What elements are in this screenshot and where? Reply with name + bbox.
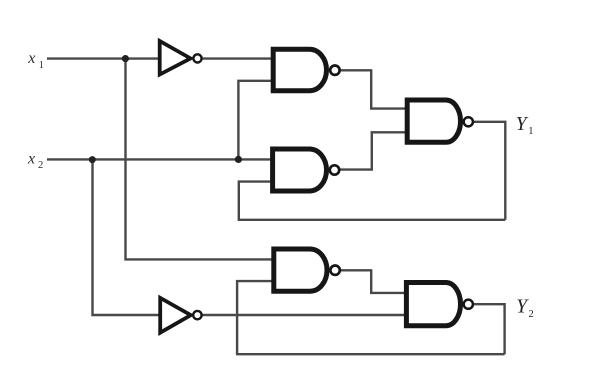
wire NAND G8 output to Y2 node and feedback down (474, 304, 505, 354)
wire NAND G2 output to NAND G3 upper input (341, 70, 409, 108)
inverter G1 (top NOT gate) (160, 41, 202, 75)
label Y1 (516, 114, 534, 137)
NAND G8 (Y2 output NAND) (406, 283, 473, 326)
junction dot node A on x1 (122, 55, 129, 62)
wire inverter G1 output to NAND G2 upper input (202, 57, 273, 59)
svg-text:x: x (27, 150, 35, 167)
inverter G6 (bottom NOT gate) (160, 298, 201, 333)
NAND G7 (bottom-left NAND) (274, 249, 340, 291)
label x1 (27, 50, 44, 71)
wire NAND G5 output to NAND G3 lower input (340, 132, 408, 169)
wire x2 input to NAND G5 upper input (47, 158, 273, 160)
wire NAND G7 output to NAND G8 upper input (341, 270, 407, 293)
wire NAND G7 lower input feedback from Y2 loop (237, 281, 505, 354)
svg-text:Y: Y (516, 114, 529, 135)
wire NAND G3 output to Y1 node and feedback down (474, 122, 505, 220)
wire inverter G6 output to NAND G8 lower input (202, 314, 407, 316)
junction dot node C on x2 (89, 156, 96, 163)
NAND G3 (Y1 output NAND) (407, 100, 473, 142)
svg-text:1: 1 (528, 126, 533, 137)
svg-text:1: 1 (39, 60, 44, 71)
wire x2 branch down to inverter G6 input (93, 159, 162, 315)
label Y2 (516, 296, 533, 320)
label x2 (27, 150, 43, 171)
NAND G2 (top-left NAND) (273, 49, 339, 90)
wire NAND G5 lower input feedback from Y1 loop (239, 182, 506, 220)
NAND G5 (middle-left NAND) (273, 149, 340, 191)
junction dot node B on x2 (235, 156, 242, 163)
wire NAND G2 lower input from node B (238, 81, 273, 160)
svg-text:x: x (27, 50, 35, 67)
wire x1 branch down to NAND G4 upper input (126, 59, 276, 260)
svg-text:2: 2 (529, 309, 534, 320)
svg-text:Y: Y (516, 296, 529, 317)
svg-text:2: 2 (38, 160, 43, 171)
wire x1 input (47, 57, 160, 59)
